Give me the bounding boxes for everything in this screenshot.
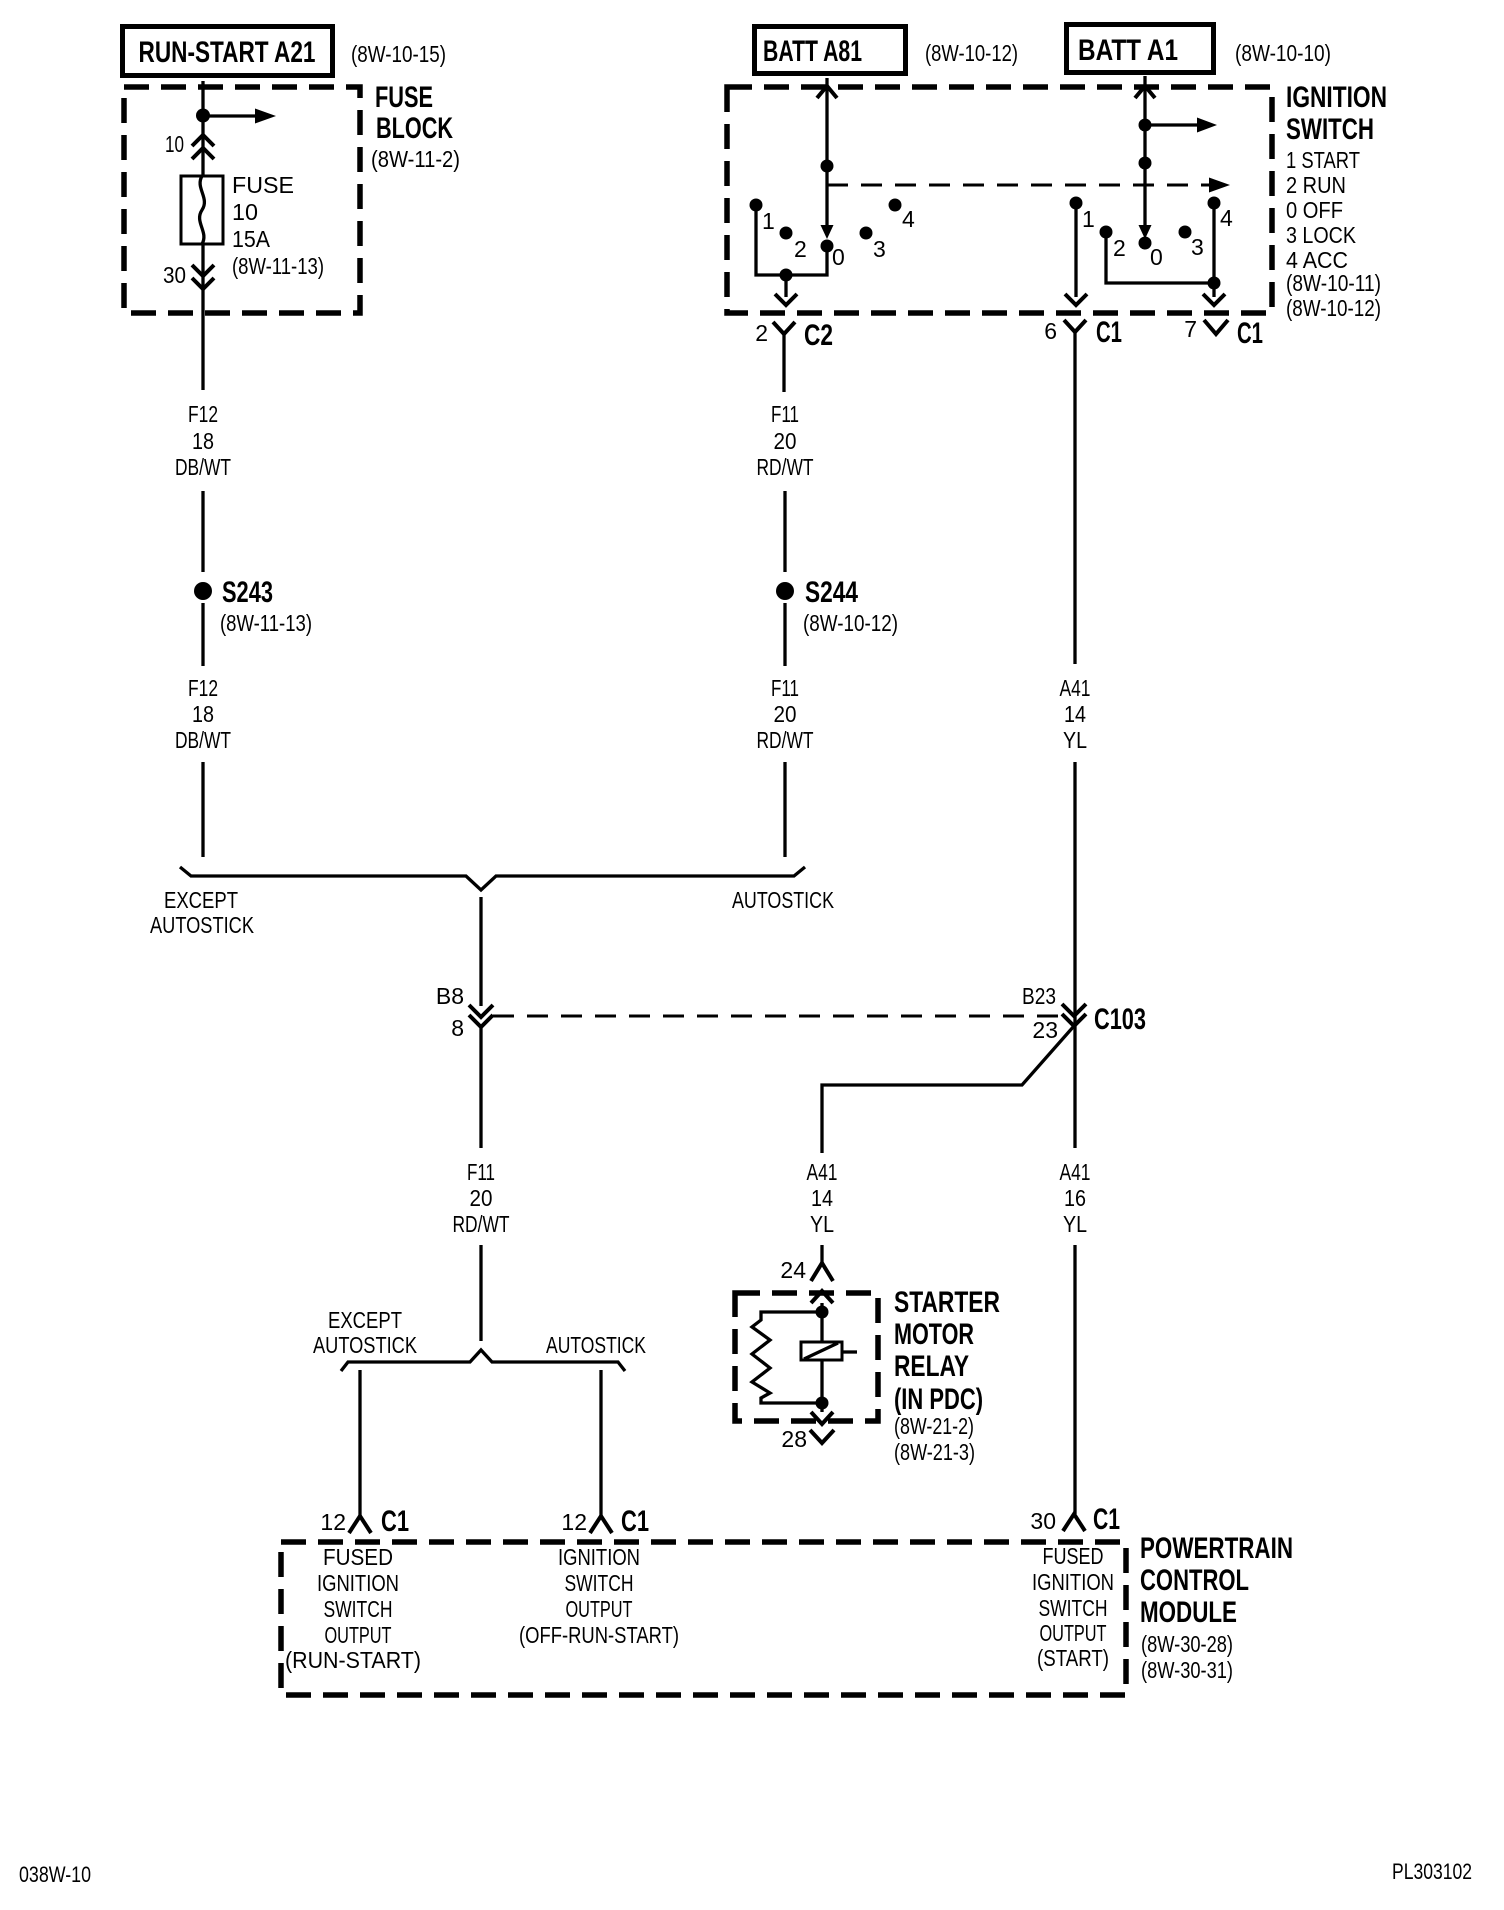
node wiper pivot A1	[1139, 157, 1152, 170]
branch wire except autostick	[358, 1370, 361, 1516]
wire BATT A1 into switch	[1143, 76, 1146, 163]
pin 30 connector	[163, 262, 214, 289]
svg-text:4: 4	[1220, 205, 1233, 231]
label IGNITION SWITCH key positions	[1286, 81, 1387, 321]
svg-text:1: 1	[1082, 206, 1095, 232]
svg-text:AUTOSTICK: AUTOSTICK	[313, 1332, 418, 1358]
wire F12 middle segment	[201, 491, 204, 572]
svg-text:MOTOR: MOTOR	[894, 1318, 974, 1351]
svg-text:(IN PDC): (IN PDC)	[894, 1383, 983, 1416]
pin connector at boundary (A81)	[817, 86, 837, 98]
contact 2 (A1)	[1100, 226, 1126, 262]
svg-text:F11: F11	[771, 675, 799, 701]
svg-text:15A: 15A	[232, 226, 271, 252]
contact 0 (A81)	[821, 240, 845, 271]
svg-text:RD/WT: RD/WT	[757, 454, 814, 480]
wiper arm arrow A81	[821, 166, 834, 239]
svg-text:FUSE: FUSE	[232, 172, 294, 198]
svg-text:EXCEPT: EXCEPT	[164, 887, 238, 913]
svg-text:(8W-11-13): (8W-11-13)	[220, 610, 312, 636]
svg-text:RD/WT: RD/WT	[757, 727, 814, 753]
node feed junction	[196, 109, 210, 123]
svg-text:20: 20	[774, 701, 797, 727]
node relay bottom	[816, 1397, 829, 1410]
svg-text:30: 30	[163, 262, 186, 288]
svg-text:FUSED: FUSED	[323, 1544, 393, 1570]
svg-text:3: 3	[873, 236, 886, 262]
svg-text:B23: B23	[1022, 983, 1056, 1009]
svg-text:MODULE: MODULE	[1140, 1596, 1237, 1629]
relay coil	[801, 1342, 857, 1360]
split junction brace	[341, 1350, 625, 1371]
svg-text:SWITCH: SWITCH	[1039, 1595, 1108, 1621]
svg-text:(8W-10-12): (8W-10-12)	[1286, 295, 1381, 321]
label FUSED IGNITION SWITCH OUTPUT (START)	[1032, 1543, 1114, 1671]
wire label F11 20 RD/WT	[453, 1159, 510, 1237]
svg-text:0: 0	[1150, 244, 1163, 270]
svg-text:12: 12	[320, 1509, 346, 1535]
svg-text:A41: A41	[1060, 1159, 1091, 1185]
label FUSE BLOCK (8W-11-2)	[371, 81, 460, 172]
svg-text:RUN-START A21: RUN-START A21	[139, 36, 316, 69]
svg-text:038W-10: 038W-10	[19, 1862, 91, 1887]
svg-text:12: 12	[561, 1509, 587, 1535]
resistor in relay	[752, 1312, 822, 1403]
powertrain control module outline	[281, 1542, 1126, 1695]
svg-text:(8W-30-28): (8W-30-28)	[1141, 1631, 1233, 1657]
svg-text:FUSE: FUSE	[375, 81, 433, 114]
svg-text:RD/WT: RD/WT	[453, 1211, 510, 1237]
connector box BATT A81	[755, 27, 906, 74]
svg-text:(OFF-RUN-START): (OFF-RUN-START)	[519, 1622, 679, 1648]
connector box RUN-START A21	[123, 27, 333, 76]
fuse block outline	[124, 87, 360, 313]
pin connector at boundary (A1)	[1135, 86, 1155, 98]
label STARTER MOTOR RELAY (IN PDC)	[894, 1286, 1000, 1465]
node A1 upper with arrow	[1139, 118, 1218, 133]
contact 1 (A1)	[1070, 197, 1095, 233]
svg-text:(8W-30-31): (8W-30-31)	[1141, 1657, 1233, 1683]
svg-text:AUTOSTICK: AUTOSTICK	[546, 1332, 646, 1358]
wire F11 below B8	[479, 1027, 482, 1148]
label IGNITION SWITCH OUTPUT (OFF-RUN-START)	[519, 1544, 679, 1648]
connector 6 C1	[1044, 316, 1122, 349]
svg-text:FUSED: FUSED	[1043, 1543, 1104, 1569]
wire F12 to merge junction	[201, 762, 204, 857]
svg-text:(8W-11-2): (8W-11-2)	[371, 146, 460, 172]
svg-text:10: 10	[165, 131, 184, 157]
svg-text:CONTROL: CONTROL	[1140, 1564, 1249, 1597]
svg-text:BLOCK: BLOCK	[376, 112, 453, 145]
label FUSED IGNITION SWITCH OUTPUT (RUN-START)	[285, 1544, 421, 1673]
svg-text:STARTER: STARTER	[894, 1286, 1000, 1319]
svg-text:14: 14	[811, 1185, 833, 1211]
output wire to pin 2	[775, 275, 797, 305]
label S244 (8W-10-12)	[803, 576, 898, 636]
node relay top	[816, 1306, 829, 1319]
svg-text:(8W-10-12): (8W-10-12)	[803, 610, 898, 636]
svg-text:B8: B8	[436, 983, 464, 1009]
pin 10 connector	[165, 131, 214, 159]
wire label A41 16 YL	[1060, 1159, 1091, 1237]
wire to relay pin 24	[820, 1245, 823, 1264]
pin 24 boundary connector	[811, 1291, 833, 1303]
svg-text:16: 16	[1064, 1185, 1086, 1211]
fuse 10 15A	[181, 176, 223, 244]
contact 1 (A81)	[750, 199, 775, 235]
svg-text:20: 20	[774, 428, 797, 454]
svg-text:18: 18	[192, 701, 214, 727]
svg-text:YL: YL	[1063, 1211, 1087, 1237]
connector 2 C2	[755, 319, 833, 392]
wire F11 to merge junction	[783, 762, 786, 857]
wire F11 lower segment	[783, 603, 786, 666]
wire A41 upper segment	[1073, 348, 1076, 664]
label POWERTRAIN CONTROL MODULE	[1140, 1532, 1293, 1683]
merge junction brace	[180, 867, 805, 890]
svg-text:(8W-21-3): (8W-21-3)	[894, 1439, 975, 1465]
connector 7 C1	[1184, 316, 1263, 350]
svg-text:30: 30	[1030, 1508, 1056, 1534]
svg-text:2: 2	[794, 236, 807, 262]
wire label A41 14 YL	[1060, 675, 1091, 753]
splice S244	[776, 582, 794, 600]
svg-text:20: 20	[470, 1185, 493, 1211]
svg-text:(RUN-START): (RUN-START)	[285, 1647, 421, 1673]
svg-text:AUTOSTICK: AUTOSTICK	[732, 887, 835, 913]
svg-text:PL303102: PL303102	[1392, 1859, 1472, 1884]
splice S243	[194, 582, 212, 600]
svg-text:2 RUN: 2 RUN	[1286, 172, 1346, 198]
svg-text:(8W-10-15): (8W-10-15)	[351, 41, 446, 67]
svg-text:4: 4	[902, 206, 915, 232]
starter motor relay outline	[735, 1293, 878, 1421]
junction node output C2	[780, 269, 793, 282]
svg-text:SWITCH: SWITCH	[1286, 113, 1374, 146]
svg-text:(8W-10-10): (8W-10-10)	[1235, 40, 1331, 66]
svg-text:F12: F12	[188, 401, 218, 427]
svg-text:6: 6	[1044, 318, 1057, 344]
wire B8 segment	[479, 897, 482, 1006]
svg-text:1: 1	[762, 208, 775, 234]
wire label F11 20 RD/WT	[757, 401, 814, 480]
connector 12 C1 right	[561, 1505, 649, 1538]
svg-text:(8W-21-2): (8W-21-2)	[894, 1413, 974, 1439]
wire BATT A81 into switch	[825, 78, 828, 166]
svg-text:YL: YL	[1063, 727, 1087, 753]
svg-text:2: 2	[1113, 235, 1126, 261]
svg-text:OUTPUT: OUTPUT	[325, 1622, 392, 1648]
contact 3 (A1)	[1179, 226, 1204, 261]
connector B8 pin 8	[436, 983, 493, 1041]
svg-text:AUTOSTICK: AUTOSTICK	[150, 912, 255, 938]
svg-text:0: 0	[832, 244, 845, 270]
svg-text:DB/WT: DB/WT	[175, 454, 231, 480]
svg-text:SWITCH: SWITCH	[565, 1570, 634, 1596]
node wiper pivot A81	[821, 160, 834, 173]
wire F11 to split junction	[479, 1245, 482, 1341]
svg-text:IGNITION: IGNITION	[558, 1544, 640, 1570]
junction node output pin 7	[1208, 277, 1221, 290]
svg-text:BATT A1: BATT A1	[1078, 34, 1178, 67]
bus wire joining contacts 1-2-0	[756, 208, 827, 275]
svg-text:A41: A41	[807, 1159, 838, 1185]
svg-text:YL: YL	[810, 1211, 834, 1237]
svg-text:F11: F11	[467, 1159, 495, 1185]
svg-text:23: 23	[1032, 1017, 1058, 1043]
svg-text:2: 2	[755, 320, 768, 346]
svg-text:EXCEPT: EXCEPT	[328, 1307, 402, 1333]
bulkhead dashed line C103	[493, 1015, 1060, 1018]
svg-text:SWITCH: SWITCH	[324, 1596, 393, 1622]
svg-text:7: 7	[1184, 316, 1197, 342]
svg-text:3: 3	[1191, 234, 1204, 260]
output wire to pin 7	[1203, 283, 1225, 305]
svg-text:A41: A41	[1060, 675, 1091, 701]
wire label F12 18 DB/WT	[175, 675, 231, 753]
svg-text:C1: C1	[1093, 1503, 1120, 1536]
connector 30 C1	[1030, 1503, 1120, 1536]
svg-text:IGNITION: IGNITION	[317, 1570, 399, 1596]
connector 12 C1 left	[320, 1505, 409, 1538]
arrow feed to other circuits	[203, 109, 276, 124]
wire F12 lower segment	[201, 603, 204, 666]
svg-text:BATT A81: BATT A81	[763, 35, 862, 68]
contact 0 (A1)	[1139, 237, 1163, 271]
branch wire A41 14 to starter relay	[822, 1026, 1074, 1153]
svg-text:(8W-10-11): (8W-10-11)	[1286, 270, 1381, 296]
branch wire autostick	[599, 1370, 602, 1516]
svg-text:3 LOCK: 3 LOCK	[1286, 222, 1357, 248]
svg-text:(START): (START)	[1037, 1645, 1109, 1671]
svg-text:24: 24	[780, 1257, 806, 1283]
svg-text:(8W-11-13): (8W-11-13)	[232, 253, 324, 279]
svg-text:18: 18	[192, 428, 214, 454]
svg-text:POWERTRAIN: POWERTRAIN	[1140, 1532, 1293, 1565]
svg-text:8: 8	[451, 1015, 464, 1041]
connector box BATT A1	[1067, 25, 1214, 73]
svg-text:DB/WT: DB/WT	[175, 727, 231, 753]
label EXCEPT AUTOSTICK	[313, 1307, 418, 1358]
connector B23 pin 23 C103	[1022, 983, 1146, 1043]
wire A41 through C103	[1073, 762, 1076, 1148]
wire label A41 14 YL	[807, 1159, 838, 1237]
wire label F11 20 RD/WT	[757, 675, 814, 753]
svg-text:28: 28	[781, 1426, 807, 1452]
label FUSE 10 15A (8W-11-13)	[232, 172, 324, 279]
wire A41 16 to PCM pin 30	[1073, 1245, 1076, 1514]
svg-text:10: 10	[232, 199, 258, 225]
svg-text:C103: C103	[1094, 1003, 1146, 1036]
svg-text:C2: C2	[804, 319, 833, 352]
svg-text:C1: C1	[1237, 317, 1263, 350]
svg-text:OUTPUT: OUTPUT	[1040, 1620, 1107, 1646]
svg-text:1 START: 1 START	[1286, 147, 1360, 173]
contact 2 (A81)	[780, 227, 807, 263]
svg-text:IGNITION: IGNITION	[1032, 1569, 1114, 1595]
connector pin 28	[781, 1426, 834, 1452]
contact 3 (A81)	[860, 227, 886, 263]
pin 28 boundary connector	[811, 1412, 833, 1424]
svg-text:F11: F11	[771, 401, 799, 427]
wire label F12 18 DB/WT	[175, 401, 231, 480]
contact 4 (A1)	[1208, 197, 1234, 232]
label EXCEPT AUTOSTICK	[150, 887, 255, 938]
wire F11 middle segment	[783, 491, 786, 572]
svg-text:S244: S244	[805, 576, 858, 609]
svg-text:F12: F12	[188, 675, 218, 701]
svg-text:14: 14	[1064, 701, 1086, 727]
svg-text:S243: S243	[222, 576, 273, 609]
wire F12 upper segment	[201, 244, 204, 390]
wire relay coil vertical	[820, 1303, 823, 1412]
svg-text:OUTPUT: OUTPUT	[566, 1596, 633, 1622]
contact 4 (A81)	[889, 199, 916, 233]
connector pin 24	[780, 1257, 833, 1283]
wiper travel dashed line with arrow	[827, 178, 1230, 193]
svg-text:0 OFF: 0 OFF	[1286, 197, 1343, 223]
svg-text:RELAY: RELAY	[894, 1350, 969, 1383]
wiper arm arrow A1	[1139, 163, 1152, 239]
label S243 (8W-11-13)	[220, 576, 312, 636]
wire RUN-START A21 feed into fuse block	[201, 81, 204, 176]
svg-text:IGNITION: IGNITION	[1286, 81, 1387, 114]
svg-text:(8W-10-12): (8W-10-12)	[925, 40, 1018, 66]
svg-text:C1: C1	[621, 1505, 649, 1538]
wire contact 1 to pin 6	[1065, 206, 1087, 305]
bus wire joining contacts 2-4	[1106, 206, 1214, 283]
svg-text:C1: C1	[1096, 316, 1122, 349]
ignition switch outline	[727, 87, 1272, 313]
svg-text:C1: C1	[381, 1505, 409, 1538]
